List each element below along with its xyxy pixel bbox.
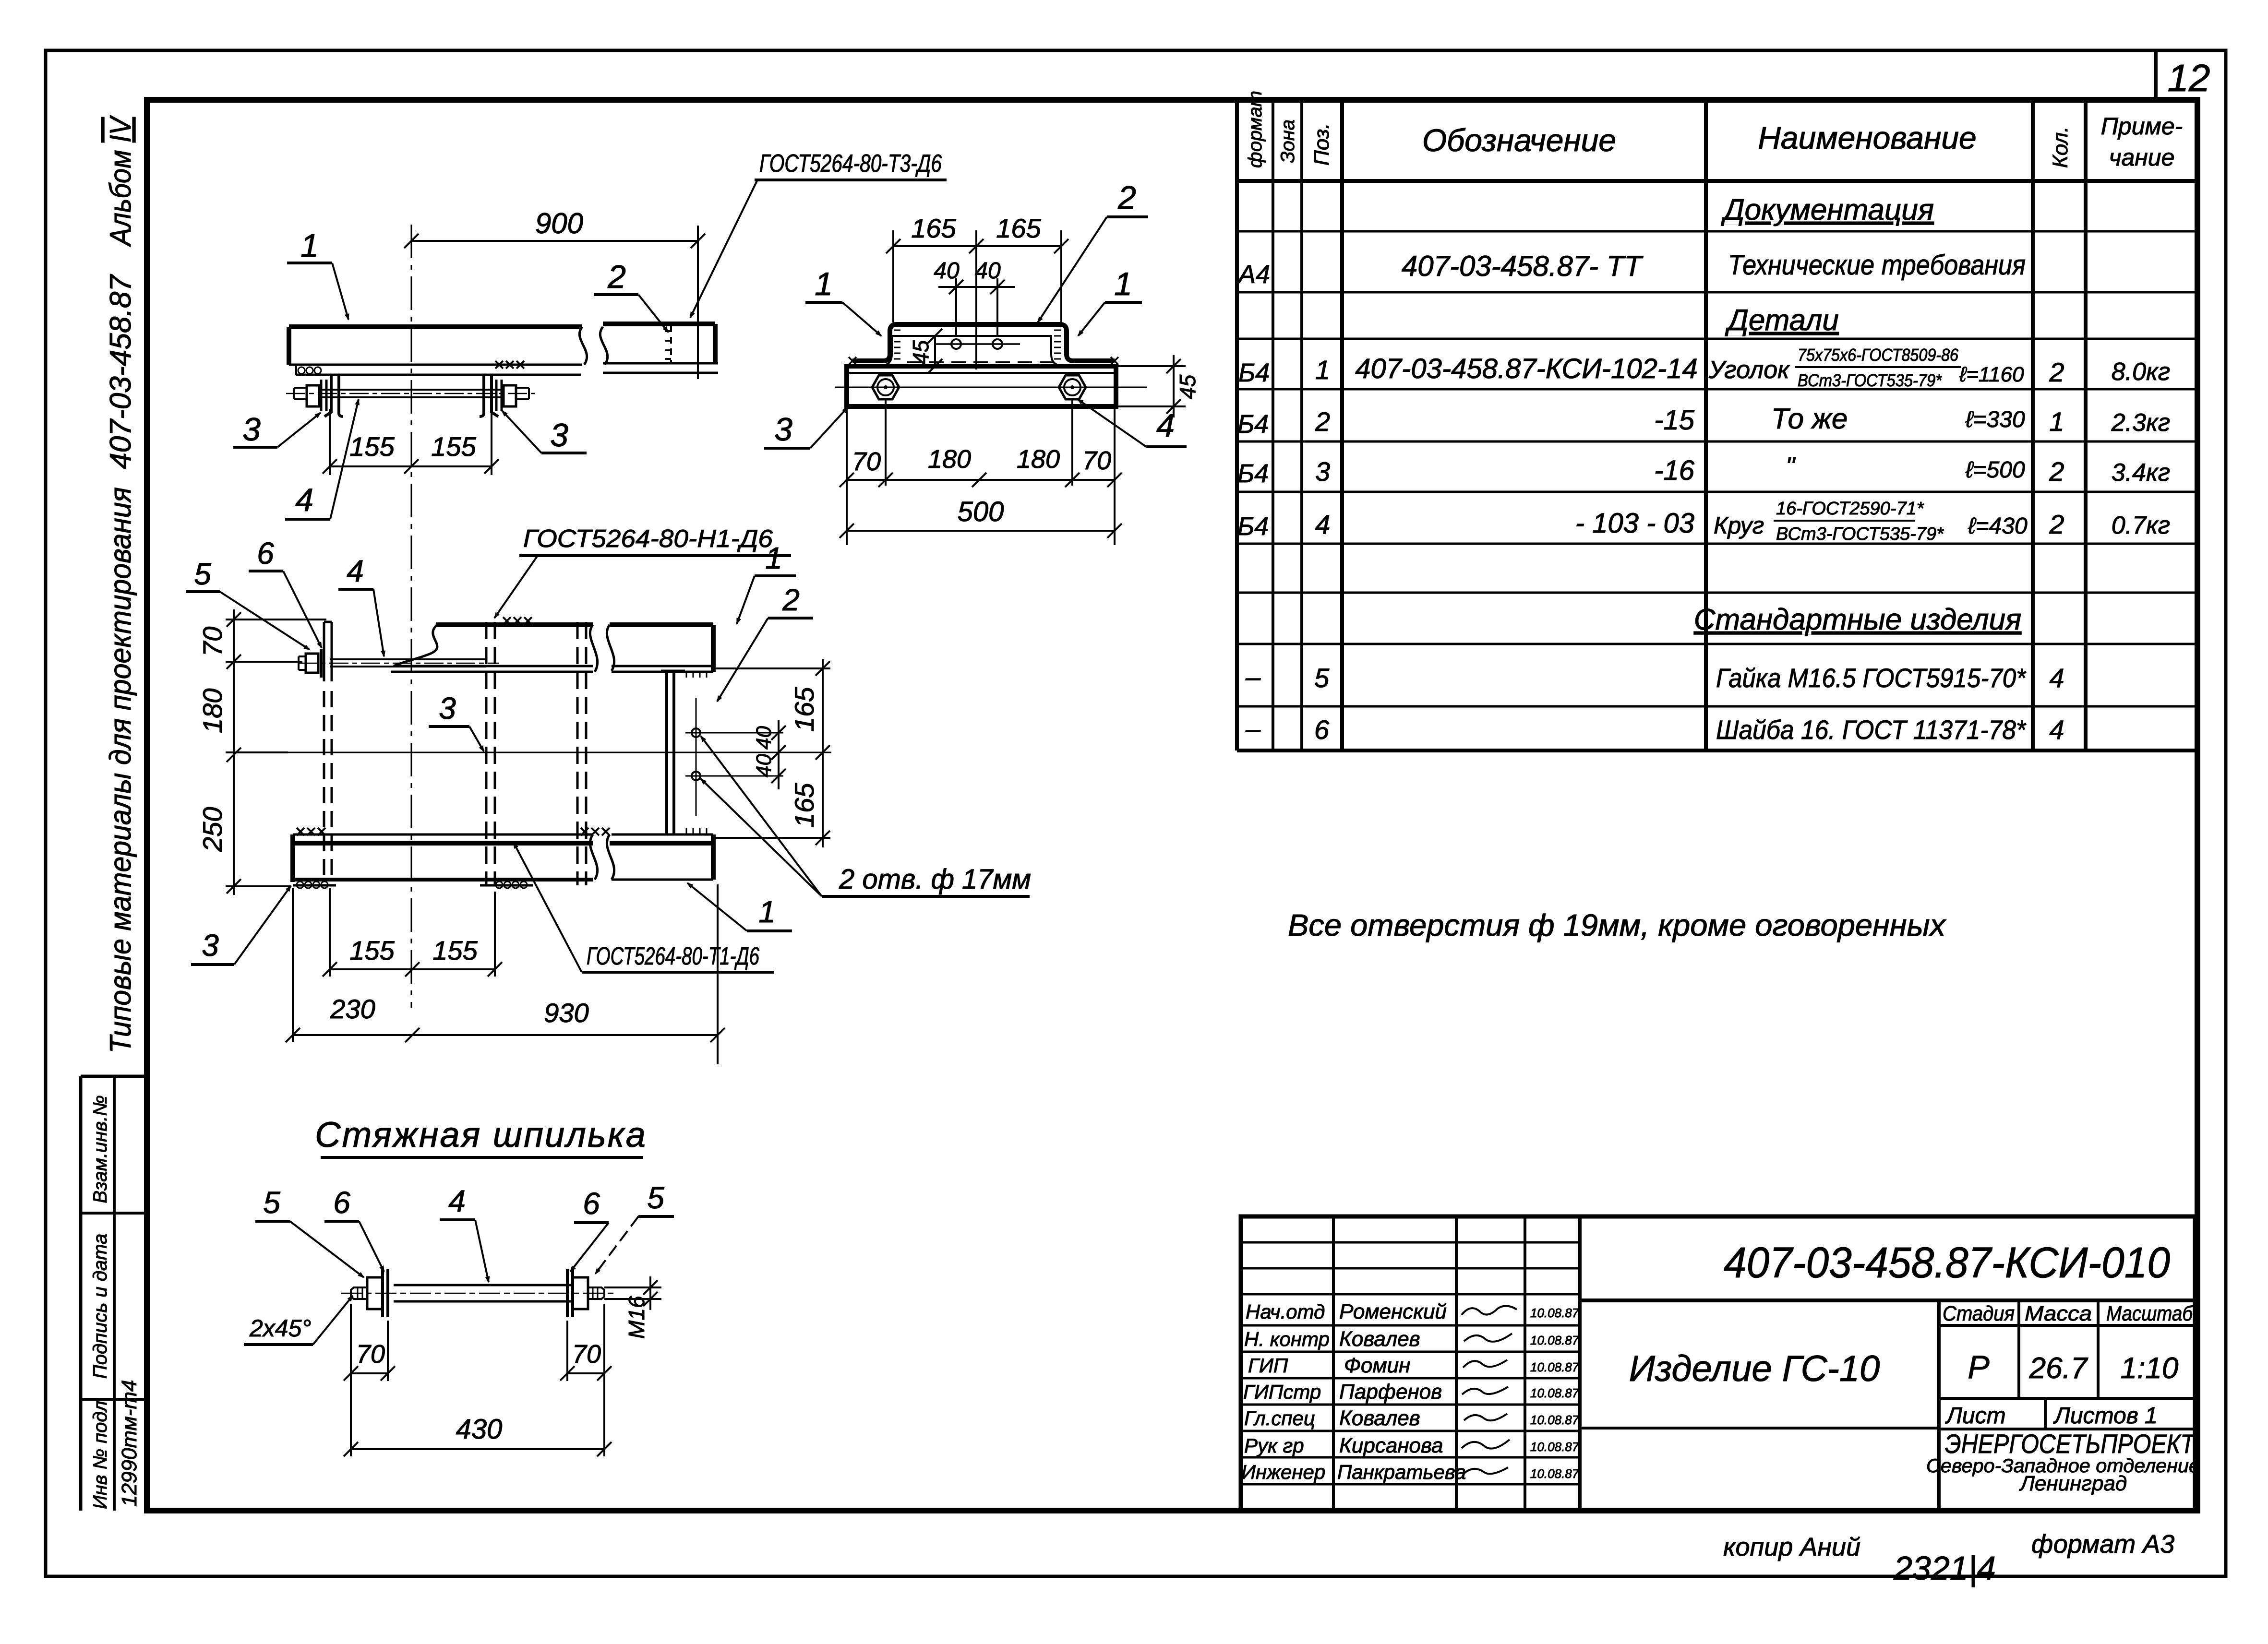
svg-text:3: 3 <box>202 928 219 963</box>
view D stud item 4 <box>341 1269 614 1317</box>
svg-text:5: 5 <box>263 1185 280 1220</box>
view A leader 3 right <box>502 411 587 453</box>
view C dimension 230 930 <box>286 884 725 1064</box>
view C bottom weld x-marks <box>297 828 610 835</box>
svg-text:3: 3 <box>242 411 261 448</box>
svg-text:2: 2 <box>607 259 626 295</box>
svg-text:- 103 - 03: - 103 - 03 <box>1575 508 1694 539</box>
view C dimension 165 165 right <box>715 659 830 847</box>
svg-text:Шайба 16. ГОСТ 11371-78*: Шайба 16. ГОСТ 11371-78* <box>1716 715 2027 745</box>
svg-text:3: 3 <box>774 411 792 448</box>
view C bottom beam item 1 <box>293 834 713 885</box>
svg-text:4: 4 <box>2049 663 2064 693</box>
svg-text:Круг: Круг <box>1714 512 1764 539</box>
svg-text:2321|4: 2321|4 <box>1893 1549 1996 1587</box>
svg-text:ВСт3-ГОСТ535-79*: ВСт3-ГОСТ535-79* <box>1798 370 1942 390</box>
inner frame <box>147 100 2197 1511</box>
svg-text:-15: -15 <box>1654 405 1695 436</box>
view D leader 5 right <box>595 1180 674 1274</box>
svg-text:6: 6 <box>1314 715 1330 745</box>
svg-text:4: 4 <box>295 482 313 518</box>
svg-text:Стадия: Стадия <box>1943 1302 2015 1325</box>
view C clamp plate dashed 1 <box>486 622 495 885</box>
view B holes in hat <box>935 339 1020 349</box>
svg-text:250: 250 <box>197 807 228 852</box>
view C clamp plate dashed 2 <box>577 622 586 885</box>
svg-text:10.08.87: 10.08.87 <box>1530 1306 1580 1320</box>
svg-text:Лист: Лист <box>1945 1403 2006 1429</box>
view D thread label M16 <box>604 1276 661 1339</box>
svg-text:А4: А4 <box>1237 260 1270 289</box>
svg-text:–: – <box>1245 714 1261 744</box>
svg-text:-16: -16 <box>1654 455 1695 486</box>
svg-text:407-03-458.87- ТТ: 407-03-458.87- ТТ <box>1402 250 1644 282</box>
view B dimension 500 <box>840 496 1122 538</box>
svg-text:930: 930 <box>544 998 588 1028</box>
svg-text:407-03-458.87-КСИ-010: 407-03-458.87-КСИ-010 <box>1724 1239 2170 1287</box>
svg-text:70: 70 <box>197 627 228 656</box>
view C label 2 отв ф 17мм <box>701 736 1031 896</box>
view A clip angles item 3 <box>324 375 498 417</box>
svg-text:Р: Р <box>1968 1349 1989 1385</box>
view A weld label ГОСТ5264-80-Т3-Д6 <box>690 150 947 318</box>
view B hidden plate item 2 dashed <box>907 361 1054 363</box>
svg-text:Подпись и дата: Подпись и дата <box>90 1234 111 1379</box>
svg-text:3: 3 <box>439 691 456 726</box>
specification table header texts <box>1245 91 2183 171</box>
view D dimension 430 <box>344 1414 612 1456</box>
title block signatures <box>1462 1306 1517 1474</box>
view A weld seam on right piece (item 2 hidden) <box>665 325 671 362</box>
svg-text:Документация: Документация <box>1721 193 1934 226</box>
svg-text:407-03-458.87: 407-03-458.87 <box>104 274 137 469</box>
svg-text:2: 2 <box>2049 509 2064 539</box>
sidebar stamp table <box>81 1076 147 1511</box>
svg-text:Рук гр: Рук гр <box>1244 1434 1304 1457</box>
svg-text:75х75х6-ГОСТ8509-86: 75х75х6-ГОСТ8509-86 <box>1798 345 1959 365</box>
svg-text:4: 4 <box>1315 509 1330 539</box>
svg-text:Масса: Масса <box>2025 1302 2092 1325</box>
svg-text:Кол.: Кол. <box>2049 127 2072 168</box>
svg-text:Кирсанова: Кирсанова <box>1339 1434 1443 1457</box>
view D leader 6 left <box>324 1185 384 1272</box>
svg-text:Наименование: Наименование <box>1758 120 1977 155</box>
svg-text:4: 4 <box>448 1184 466 1218</box>
general note <box>1288 908 1946 942</box>
view C dimension 40 40 <box>752 720 786 789</box>
svg-text:ГОСТ5264-80-Н1-Д6: ГОСТ5264-80-Н1-Д6 <box>523 525 773 553</box>
svg-text:Стандартные изделия: Стандартные изделия <box>1694 603 2022 636</box>
svg-text:Парфенов: Парфенов <box>1339 1380 1442 1404</box>
svg-text:155: 155 <box>349 935 395 965</box>
view C leader 5 <box>186 557 310 650</box>
sidebar text: Альбом IV <box>104 115 137 248</box>
svg-text:Обозначение: Обозначение <box>1422 122 1616 158</box>
svg-text:10.08.87: 10.08.87 <box>1530 1386 1580 1400</box>
svg-text:ВСт3-ГОСТ535-79*: ВСт3-ГОСТ535-79* <box>1776 524 1944 544</box>
svg-text:430: 430 <box>456 1414 503 1445</box>
svg-text:Б4: Б4 <box>1238 358 1270 387</box>
svg-text:500: 500 <box>958 496 1004 527</box>
svg-text:Нач.отд: Нач.отд <box>1246 1300 1325 1323</box>
svg-text:2: 2 <box>1117 179 1136 216</box>
view A leader 2 <box>594 259 668 332</box>
svg-text:ГИПстр: ГИПстр <box>1243 1381 1321 1403</box>
svg-text:Взам.инв.№: Взам.инв.№ <box>90 1095 111 1203</box>
view A leader 1 <box>287 227 348 320</box>
view C weld label ГОСТ5264-80-Н1-Д6 <box>494 525 791 618</box>
svg-text:Поз.: Поз. <box>1310 123 1333 166</box>
view D leader 5 left <box>255 1185 364 1277</box>
svg-text:Ленинград: Ленинград <box>2019 1472 2127 1495</box>
view A dimension 155 155 <box>323 409 499 475</box>
view C top beam item 1 <box>391 625 713 672</box>
svg-text:ГОСТ5264-80-Т3-Д6: ГОСТ5264-80-Т3-Д6 <box>759 150 942 178</box>
svg-text:Ковалев: Ковалев <box>1339 1406 1420 1430</box>
svg-text:10.08.87: 10.08.87 <box>1530 1440 1580 1454</box>
svg-text:8.0кг: 8.0кг <box>2112 358 2170 386</box>
view B leader 4 <box>1078 399 1187 447</box>
svg-text:Б4: Б4 <box>1237 512 1269 541</box>
svg-text:5: 5 <box>1314 663 1330 693</box>
svg-text:Детали: Детали <box>1725 304 1839 337</box>
view D leader 6 right <box>570 1186 609 1272</box>
svg-text:Масштаб: Масштаб <box>2106 1302 2194 1325</box>
svg-text:180: 180 <box>1017 445 1060 474</box>
svg-text:ЭНЕРГОСЕТЬПРОЕКТ: ЭНЕРГОСЕТЬПРОЕКТ <box>1945 1429 2196 1459</box>
view A centerline <box>411 225 412 1008</box>
svg-text:2х45°: 2х45° <box>249 1315 311 1342</box>
svg-text:ГИП: ГИП <box>1248 1354 1288 1377</box>
view B hex nut left (item 5) <box>872 375 899 399</box>
svg-text:3: 3 <box>1315 456 1330 487</box>
view A leader 3 left <box>233 411 321 448</box>
svg-text:1: 1 <box>765 541 782 575</box>
svg-text:Панкратьева: Панкратьева <box>1337 1461 1466 1483</box>
svg-text:2 отв. ф 17мм: 2 отв. ф 17мм <box>839 864 1031 895</box>
view D leader 4 <box>440 1184 489 1282</box>
view B dimension 40 40 <box>934 258 1015 336</box>
svg-text:1:10: 1:10 <box>2121 1352 2179 1385</box>
svg-text:2.3кг: 2.3кг <box>2111 409 2170 437</box>
svg-text:0.7кг: 0.7кг <box>2112 512 2170 539</box>
svg-text:12: 12 <box>2168 57 2210 99</box>
svg-text:2: 2 <box>2049 357 2064 387</box>
svg-text:40: 40 <box>752 726 776 750</box>
svg-text:10.08.87: 10.08.87 <box>1530 1333 1580 1347</box>
specification rows <box>1237 193 2170 745</box>
svg-text:70: 70 <box>356 1340 385 1369</box>
svg-text:1: 1 <box>2049 406 2064 437</box>
svg-text:ℓ=330: ℓ=330 <box>1965 407 2025 432</box>
view C leader 1 bottom <box>687 883 792 931</box>
view B brim weld marks <box>849 357 1118 365</box>
view D dimension 70 left <box>344 1304 395 1456</box>
svg-text:Все отверстия ф 19мм, кром: Все отверстия ф 19мм, кроме оговоренных <box>1288 908 1946 942</box>
svg-text:165: 165 <box>911 213 956 243</box>
svg-text:4: 4 <box>347 554 364 588</box>
svg-text:2: 2 <box>782 583 800 617</box>
view C holes 2 отв ф17 <box>685 698 783 816</box>
view C bottom weld dots <box>297 882 527 888</box>
svg-text:10.08.87: 10.08.87 <box>1530 1413 1580 1427</box>
view A leader 4 <box>285 399 359 519</box>
svg-text:Изделие ГС-10: Изделие ГС-10 <box>1629 1348 1880 1389</box>
view C leader 3 bottom left <box>191 886 291 965</box>
svg-text:Уголок: Уголок <box>1708 356 1790 384</box>
view A weld dots left end <box>298 367 321 374</box>
view C left plate item 3 <box>324 622 332 882</box>
svg-text:Альбом IV: Альбом IV <box>104 115 137 248</box>
svg-text:Н. контр: Н. контр <box>1244 1328 1330 1350</box>
svg-text:12990тм-т4: 12990тм-т4 <box>118 1380 141 1507</box>
view B base plate item 3 <box>835 366 1147 406</box>
svg-text:ГОСТ5264-80-Т1-Д6: ГОСТ5264-80-Т1-Д6 <box>587 942 759 970</box>
svg-text:Инженер: Инженер <box>1241 1461 1325 1483</box>
view B dimension 45 inside hat <box>908 329 942 373</box>
view A stud item 4 with nuts <box>286 380 535 411</box>
title block texts <box>1241 1239 2200 1495</box>
svg-text:М16: М16 <box>624 1296 649 1339</box>
svg-text:формат: формат <box>1245 91 1266 168</box>
svg-text:4: 4 <box>2049 715 2064 745</box>
svg-text:ℓ=500: ℓ=500 <box>1965 457 2025 483</box>
svg-text:180: 180 <box>197 689 228 733</box>
view D title Стяжная шпилька <box>315 1115 647 1157</box>
svg-text:40: 40 <box>752 754 776 777</box>
svg-text:180: 180 <box>928 445 971 474</box>
sidebar text: Типовые материалы для проектирования 407-03-458.87 <box>104 274 137 1053</box>
svg-text:Технические требования: Технические требования <box>1728 250 2026 281</box>
view C stud item 4 plan <box>298 649 499 678</box>
title block grid <box>1241 1216 2195 1511</box>
view C left dimensions 70 180 250 <box>197 609 326 895</box>
svg-text:1: 1 <box>1114 266 1132 302</box>
svg-text:3: 3 <box>550 417 568 453</box>
svg-text:То же: То же <box>1771 403 1848 435</box>
view C leader 6 <box>249 536 322 648</box>
svg-text:230: 230 <box>330 994 375 1024</box>
view C top weld x-marks <box>503 617 532 625</box>
view B dimension 70 180 180 70 <box>840 399 1122 545</box>
view D label 2x45 <box>244 1296 353 1345</box>
svg-text:155: 155 <box>432 935 478 965</box>
svg-text:Роменский: Роменский <box>1339 1300 1447 1323</box>
svg-text:ℓ=1160: ℓ=1160 <box>1959 363 2024 386</box>
view B leader 2 <box>1038 179 1148 322</box>
view C leader 4 <box>338 554 384 656</box>
svg-text:формат А3: формат А3 <box>2031 1530 2174 1559</box>
svg-text:165: 165 <box>789 687 819 732</box>
svg-text:70: 70 <box>852 447 881 476</box>
svg-text:Зона: Зона <box>1277 119 1298 163</box>
svg-text:2: 2 <box>2049 456 2064 487</box>
svg-text:Типовые материалы для проектир: Типовые материалы для проектирования <box>104 487 137 1053</box>
svg-text:45: 45 <box>908 340 933 365</box>
svg-text:Фомин: Фомин <box>1344 1354 1410 1377</box>
view A weld x-marks mid <box>495 361 524 369</box>
view C leader 2 <box>717 583 813 702</box>
view B hat profile (items 1+1) <box>852 324 1115 366</box>
svg-text:Б4: Б4 <box>1237 459 1269 488</box>
svg-text:45: 45 <box>1175 374 1200 399</box>
specification table grid <box>1237 100 2197 751</box>
svg-text:10.08.87: 10.08.87 <box>1530 1360 1580 1374</box>
svg-text:–: – <box>1245 662 1261 692</box>
svg-text:155: 155 <box>349 431 395 462</box>
svg-text:чание: чание <box>2109 144 2175 171</box>
svg-text:5: 5 <box>194 557 211 591</box>
svg-text:2: 2 <box>1315 406 1330 437</box>
svg-text:1: 1 <box>815 266 833 302</box>
svg-text:26.7: 26.7 <box>2029 1352 2088 1385</box>
svg-text:Б4: Б4 <box>1237 410 1269 439</box>
svg-text:Ковалев: Ковалев <box>1339 1327 1420 1351</box>
view B dimension 45 right <box>1116 355 1200 417</box>
view B leader 1 right <box>1078 266 1142 336</box>
view C leader 3 mid <box>429 691 484 751</box>
view C dimension 155 155 bottom <box>323 888 502 977</box>
svg-text:40: 40 <box>934 258 960 284</box>
view A dimension 900 <box>404 207 705 379</box>
view B hex nut right (item 5) <box>1059 375 1086 399</box>
svg-text:Гл.спец: Гл.спец <box>1244 1407 1315 1430</box>
svg-text:900: 900 <box>535 207 583 239</box>
svg-text:": " <box>1786 452 1796 481</box>
svg-text:10.08.87: 10.08.87 <box>1530 1466 1580 1481</box>
svg-text:Листов 1: Листов 1 <box>2053 1403 2158 1429</box>
svg-text:Инв № подл: Инв № подл <box>90 1401 111 1509</box>
svg-text:165: 165 <box>789 783 819 828</box>
view D dimension 70 right <box>560 1304 612 1456</box>
svg-text:Гайка М16.5 ГОСТ5915-70*: Гайка М16.5 ГОСТ5915-70* <box>1716 663 2027 693</box>
svg-text:ℓ=430: ℓ=430 <box>1968 513 2028 539</box>
svg-text:1: 1 <box>1315 355 1330 385</box>
view B leader 1 left <box>805 266 881 336</box>
bottom margin texts <box>1723 1530 2174 1587</box>
page number box <box>2156 50 2210 100</box>
svg-text:4: 4 <box>1156 407 1175 444</box>
view C right end angle item 2 <box>661 671 707 834</box>
view B dimension 165 165 <box>886 213 1068 369</box>
svg-text:70: 70 <box>1082 446 1111 475</box>
svg-text:Стяжная шпилька: Стяжная шпилька <box>315 1115 647 1155</box>
svg-text:16-ГОСТ2590-71*: 16-ГОСТ2590-71* <box>1776 499 1924 519</box>
svg-text:407-03-458.87-КСИ-102-14: 407-03-458.87-КСИ-102-14 <box>1355 353 1697 384</box>
svg-text:70: 70 <box>572 1340 601 1369</box>
svg-text:6: 6 <box>257 536 274 571</box>
svg-text:40: 40 <box>975 258 1001 284</box>
svg-text:копир Аний: копир Аний <box>1723 1533 1860 1561</box>
svg-text:165: 165 <box>996 213 1041 243</box>
svg-text:6: 6 <box>583 1186 600 1221</box>
view A beam item 1 (angle 75x75, side view with break) <box>289 324 718 375</box>
svg-text:1: 1 <box>758 894 776 929</box>
view B leader 3 <box>764 407 848 448</box>
view C weld label ГОСТ5264-80-Т1-Д6 <box>514 843 774 972</box>
svg-text:Приме-: Приме- <box>2101 113 2183 140</box>
view C horizontal centerline <box>288 752 831 753</box>
svg-text:155: 155 <box>431 431 476 462</box>
svg-text:5: 5 <box>647 1180 664 1215</box>
view C leader 1 top <box>737 541 796 624</box>
view B hat serrations <box>894 330 1061 359</box>
svg-text:1: 1 <box>300 227 319 264</box>
svg-text:6: 6 <box>333 1185 350 1220</box>
svg-text:3.4кг: 3.4кг <box>2112 459 2170 487</box>
